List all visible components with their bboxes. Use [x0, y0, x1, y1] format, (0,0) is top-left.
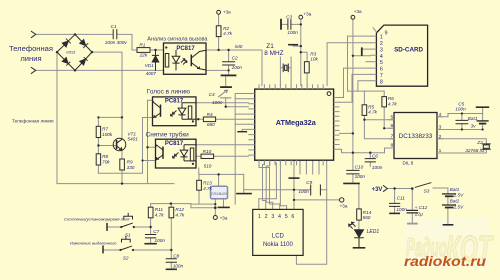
diode bridge VDS1 — [57, 34, 92, 70]
svg-text:70k: 70k — [102, 160, 110, 165]
wire R2 pullup — [218, 14, 220, 50]
ground bar C7 — [145, 243, 156, 245]
svg-text:9: 9 — [385, 30, 388, 36]
svg-text:100n: 100n — [212, 100, 223, 105]
wire R14 feed — [358, 183, 360, 229]
svg-text:4.7k: 4.7k — [155, 212, 165, 217]
resistor R9 — [120, 159, 125, 170]
svg-text:1.5V: 1.5V — [454, 205, 465, 210]
wire MCU left bus — [235, 94, 248, 205]
svg-text:22µ: 22µ — [414, 212, 423, 217]
wire +3v rail keys — [151, 204, 215, 208]
svg-text:4.7k: 4.7k — [388, 101, 398, 106]
capacitor C11 — [390, 203, 400, 206]
crystal Z1 — [283, 64, 288, 72]
wire phone line 2 — [36, 69, 164, 71]
svg-text:7: 7 — [380, 73, 383, 79]
svg-text:100n: 100n — [173, 264, 184, 269]
optocoupler U3 PC817 — [156, 139, 197, 168]
wire SD pin8 — [358, 81, 371, 91]
resistor R12 — [169, 207, 174, 218]
net arrow +3V — [384, 186, 388, 192]
resistor R6 — [382, 97, 387, 107]
wire R1 to opto U1 — [150, 49, 164, 51]
terminal +3a sd — [351, 15, 355, 19]
ground bar C11 — [390, 212, 399, 214]
svg-text:VDS1: VDS1 — [66, 51, 76, 55]
wire RTC pin1 to Z2 — [437, 149, 486, 153]
ground bar C12 — [407, 223, 418, 225]
wire C5 — [461, 114, 463, 130]
ground bar MCU left — [238, 131, 246, 133]
svg-text:R9: R9 — [127, 160, 133, 165]
svg-text:4: 4 — [439, 112, 442, 118]
wire LCD pin4 — [259, 160, 280, 209]
display LCD Nokia 1100 — [253, 209, 303, 255]
svg-text:C1: C1 — [111, 24, 117, 29]
svg-text:7: 7 — [390, 134, 393, 140]
svg-text:Анализ сигнала вызова: Анализ сигнала вызова — [147, 36, 208, 42]
svg-text:100n 300v: 100n 300v — [105, 40, 128, 45]
connector arrow line1 — [31, 31, 35, 37]
switch S3 — [415, 183, 431, 188]
resistor R7 — [96, 126, 100, 137]
wire R10 to MCU — [196, 155, 248, 157]
wire R5 to RTC pin5 and pin7 — [364, 91, 394, 139]
switch S2 — [102, 246, 104, 253]
ground bar C10 — [344, 182, 359, 184]
svg-text:560: 560 — [363, 215, 371, 220]
svg-text:C11: C11 — [397, 195, 406, 200]
svg-text:C10: C10 — [355, 165, 364, 170]
wire Bat1 RTC — [482, 107, 484, 129]
resistor R4 — [203, 117, 215, 122]
ground bar DS18b20 — [218, 206, 229, 208]
wire C12 — [411, 189, 413, 223]
wire +3a right stem and SD pin4 — [353, 19, 371, 55]
svg-text:8: 8 — [390, 143, 393, 149]
svg-text:1: 1 — [258, 214, 261, 220]
wire C2 and U1 emitter — [206, 50, 229, 75]
svg-text:6: 6 — [380, 67, 383, 73]
wire SD pin1 — [348, 36, 371, 91]
ground bar MCU bottom — [289, 177, 298, 179]
svg-text:1: 1 — [380, 35, 383, 41]
svg-text:Bat2: Bat2 — [450, 199, 460, 204]
svg-text:32768 hz: 32768 hz — [465, 148, 485, 153]
svg-text:100n: 100n — [155, 238, 166, 243]
svg-text:Голос в линию: Голос в линию — [147, 89, 190, 96]
wire SPI vertical — [340, 56, 353, 153]
battery Bat1 rtc — [477, 120, 488, 122]
terminal +3a right — [340, 198, 344, 202]
svg-text:C8: C8 — [173, 253, 179, 258]
ground bar C3 — [280, 20, 282, 29]
svg-text:4: 4 — [278, 214, 281, 220]
wire left gnd link — [242, 129, 248, 131]
wire R11 C7 — [150, 204, 152, 244]
svg-text:Z2: Z2 — [476, 140, 483, 145]
wire RTC pin4 — [437, 114, 483, 117]
wire DS18b20 top — [218, 174, 220, 186]
capacitor C7 — [146, 235, 156, 238]
capacitor C1 — [113, 30, 117, 39]
connector X1 SD-CARD — [371, 25, 428, 86]
sensor DS18b20 — [211, 186, 228, 199]
wire gnd rail 152 — [340, 149, 385, 153]
svg-text:C6: C6 — [372, 154, 378, 159]
terminal +3a left — [217, 10, 221, 14]
wire +3a terminal right — [294, 199, 339, 201]
svg-text:Nokia 1100: Nokia 1100 — [263, 242, 294, 248]
pin numbers RTC right — [439, 112, 442, 154]
svg-text:6: 6 — [291, 214, 294, 220]
capacitor C6 — [365, 159, 375, 162]
RTC U5 DC1338z33 — [389, 113, 443, 159]
svg-text:100n: 100n — [298, 189, 309, 194]
wire U3 output — [196, 144, 248, 146]
capacitor C2 — [223, 62, 235, 65]
svg-text:22k: 22k — [139, 52, 148, 57]
svg-text:R1: R1 — [139, 42, 145, 47]
svg-text:S2: S2 — [123, 255, 129, 260]
svg-text:100n: 100n — [287, 30, 298, 35]
wire opto U1 output int0 — [206, 50, 262, 86]
wire +3V battery rail — [387, 188, 412, 190]
svg-text:100k: 100k — [102, 132, 113, 137]
wire MCU left links — [235, 99, 248, 125]
wire gnd stub under MCU — [293, 160, 295, 209]
capacitor C10 — [347, 170, 359, 174]
wire C10 — [352, 153, 354, 183]
svg-text:10k: 10k — [310, 57, 318, 62]
svg-text:330: 330 — [127, 165, 135, 170]
resistor R1 — [137, 48, 150, 53]
wire SD pin6 — [340, 68, 371, 97]
battery Bat1 — [443, 193, 456, 195]
svg-text:линия: линия — [20, 54, 41, 63]
svg-text:Z1: Z1 — [266, 43, 274, 50]
svg-text:+3a: +3a — [223, 10, 231, 15]
svg-text:R4: R4 — [207, 112, 213, 117]
capacitor C3 — [288, 20, 291, 30]
resistor R5 — [362, 105, 367, 116]
svg-text:5: 5 — [285, 214, 288, 220]
svg-text:C7: C7 — [153, 229, 159, 234]
svg-text:LED1: LED1 — [367, 229, 380, 235]
wire +3 rail 91 — [348, 90, 385, 92]
svg-text:3: 3 — [380, 48, 383, 54]
svg-text:Телефонная линия: Телефонная линия — [12, 119, 54, 124]
LED LED1 — [355, 230, 364, 238]
wire SD pin2 — [327, 43, 370, 86]
resistor R11 — [148, 207, 153, 218]
connector arrow line2 — [31, 67, 35, 73]
transistor VT1 — [113, 138, 126, 151]
wire +3a mid stem — [300, 19, 302, 85]
wire S3 to battery — [433, 188, 448, 224]
svg-text:2: 2 — [439, 134, 442, 140]
wire opto U2 collector bus — [148, 100, 156, 183]
svg-text:4.7k: 4.7k — [368, 110, 378, 115]
svg-text:3: 3 — [439, 125, 442, 131]
wire R3 — [301, 52, 307, 85]
trimmer capacitor C4 — [221, 86, 231, 88]
svg-text:R7: R7 — [102, 127, 108, 132]
wire SD pin7 — [340, 74, 371, 102]
resistor R10 — [201, 154, 214, 158]
wire +3a mid rail — [199, 168, 294, 193]
wire LCD pin1 — [259, 160, 277, 209]
wire LCD backlight loop — [296, 160, 326, 264]
wire C4 trimmer node — [226, 75, 249, 106]
svg-text:6: 6 — [390, 123, 393, 129]
terminal +3a keys — [213, 216, 217, 220]
wire RTC pin2 to Z2 — [437, 139, 486, 144]
wire DS18b20 right pin to gnd — [223, 199, 225, 207]
svg-text:+ C12: + C12 — [415, 205, 428, 210]
svg-text:C4: C4 — [209, 92, 215, 97]
svg-text:C3: C3 — [286, 14, 292, 19]
svg-text:4.7k: 4.7k — [223, 31, 233, 36]
resistor R14 — [357, 209, 362, 220]
wire RTC pin3 — [437, 129, 483, 131]
svg-text:8: 8 — [380, 79, 383, 85]
svg-text:+3a: +3a — [340, 204, 348, 209]
wire R8 emitter rail to opto U3 — [98, 118, 155, 174]
svg-text:5: 5 — [390, 114, 393, 120]
capacitor C5 — [456, 120, 468, 123]
wire R6 to RTC pin6 — [384, 91, 394, 128]
capacitor C12 — [407, 210, 417, 213]
wire C11 — [394, 189, 396, 213]
svg-text:Снятие трубки: Снятие трубки — [146, 131, 190, 139]
ground bar C8 — [167, 268, 177, 270]
svg-text:ATMega32a: ATMega32a — [276, 118, 317, 127]
svg-text:5: 5 — [380, 60, 383, 66]
wire LCD pin3 — [266, 160, 273, 209]
wire C6 — [369, 153, 371, 167]
svg-text:100n: 100n — [396, 207, 407, 212]
svg-text:C2: C2 — [232, 56, 238, 61]
svg-text:4007: 4007 — [146, 71, 157, 76]
wire R13 and DQ — [191, 174, 215, 204]
microcontroller U4 ATMega32a — [248, 84, 339, 165]
svg-text:8 MHZ: 8 MHZ — [264, 50, 283, 57]
svg-text:S3: S3 — [424, 189, 430, 194]
svg-text:4.7k: 4.7k — [175, 212, 185, 217]
svg-text:Состояние(установка)время поля: Состояние(установка)время поля — [64, 216, 130, 221]
capacitor C9 — [311, 185, 321, 195]
wire S2 row — [104, 249, 172, 251]
svg-text:1: 1 — [439, 148, 442, 154]
svg-text:5401: 5401 — [127, 137, 138, 142]
wire R4 to MCU — [196, 118, 248, 120]
svg-text:S1: S1 — [125, 232, 131, 237]
svg-text:R8: R8 — [102, 154, 108, 159]
svg-text:LCD: LCD — [272, 234, 285, 240]
svg-text:VD1: VD1 — [145, 63, 155, 68]
wire LCD pin5 — [280, 160, 286, 209]
wire C3 — [281, 23, 301, 25]
svg-text:2: 2 — [380, 41, 383, 47]
svg-text:680: 680 — [207, 122, 215, 127]
battery Bat2 — [443, 204, 456, 206]
ground bar Bat1 — [477, 106, 489, 108]
wire MCU bottom stubs — [300, 160, 319, 174]
ground bar C9 — [237, 193, 251, 195]
resistor R8 — [96, 154, 100, 165]
svg-text:3: 3 — [271, 214, 274, 220]
svg-text:Bat1: Bat1 — [450, 187, 460, 192]
svg-text:radiokot.ru: radiokot.ru — [404, 254, 487, 269]
svg-text:int0: int0 — [235, 44, 243, 49]
watermark RadioKOT — [403, 218, 494, 269]
svg-text:2: 2 — [265, 214, 268, 220]
svg-text:4.7k: 4.7k — [203, 186, 213, 191]
diode VD1 — [152, 50, 159, 70]
svg-text:SD-CARD: SD-CARD — [394, 47, 423, 54]
wire xtal gnd stem — [293, 45, 301, 46]
svg-text:PC817: PC817 — [176, 46, 195, 52]
ground bar LED1 — [354, 247, 365, 249]
wire crystal Z1 legs — [280, 57, 291, 86]
capacitor C8 — [166, 259, 176, 262]
svg-text:+3V: +3V — [372, 187, 383, 193]
ground bar U1 — [222, 74, 236, 76]
svg-text:Bat1: Bat1 — [468, 116, 478, 121]
svg-text:+3a: +3a — [354, 9, 362, 14]
pin numbers RTC left — [390, 114, 393, 148]
svg-text:100n: 100n — [455, 106, 466, 111]
wire S1 row — [108, 226, 151, 228]
ground bar xtal — [289, 44, 297, 46]
resistor R13 — [197, 180, 202, 190]
svg-text:100n: 100n — [355, 174, 366, 179]
switch S1 — [106, 224, 108, 231]
wire phone line 1 — [36, 34, 137, 50]
svg-text:Изменение выделенного: Изменение выделенного — [70, 240, 117, 245]
optocoupler U1 PC817 — [164, 43, 207, 74]
svg-text:3v: 3v — [471, 123, 477, 128]
svg-text:510: 510 — [204, 163, 212, 168]
terminal +3a mid — [299, 15, 303, 19]
resistor R3 — [304, 62, 309, 73]
svg-text:+3a: +3a — [220, 216, 228, 221]
wire U2 output — [196, 102, 248, 104]
wire LCD pin2 — [263, 160, 266, 209]
svg-text:Телефонная: Телефонная — [9, 44, 53, 53]
wire bridge plus output — [92, 52, 122, 117]
svg-text:PC817: PC817 — [165, 141, 184, 147]
wire VT1 collector rail — [98, 117, 122, 183]
svg-text:PC817: PC817 — [165, 99, 184, 105]
svg-text:+3a: +3a — [304, 11, 312, 16]
svg-text:DS18b20: DS18b20 — [211, 192, 226, 196]
svg-text:1.5V: 1.5V — [454, 193, 465, 198]
wire SD pin3 gnd — [363, 48, 371, 50]
ground bar SD pin3 — [361, 48, 363, 55]
svg-text:100n: 100n — [372, 165, 383, 170]
wire C9 node — [294, 189, 327, 191]
wire bridge minus to ground rail — [57, 52, 174, 184]
optocoupler U2 PC817 — [153, 97, 197, 126]
ground bar battery — [443, 224, 454, 226]
svg-text:R10: R10 — [203, 149, 212, 154]
wire R12 C8 — [170, 204, 172, 269]
wire DS18b20 left pin to +3a — [214, 199, 216, 216]
svg-text:C9: C9 — [306, 180, 312, 185]
wire RTC pin8 — [385, 148, 395, 153]
svg-text:4: 4 — [380, 54, 383, 60]
svg-text:100n: 100n — [232, 65, 243, 70]
svg-text:DC1338z33: DC1338z33 — [399, 133, 433, 140]
wire SD pin5 stub — [366, 61, 371, 63]
crystal Z2 — [482, 144, 490, 149]
svg-text:DIL 8: DIL 8 — [403, 161, 414, 166]
node label Telephone line title — [9, 36, 208, 138]
resistor R2 — [216, 26, 221, 37]
